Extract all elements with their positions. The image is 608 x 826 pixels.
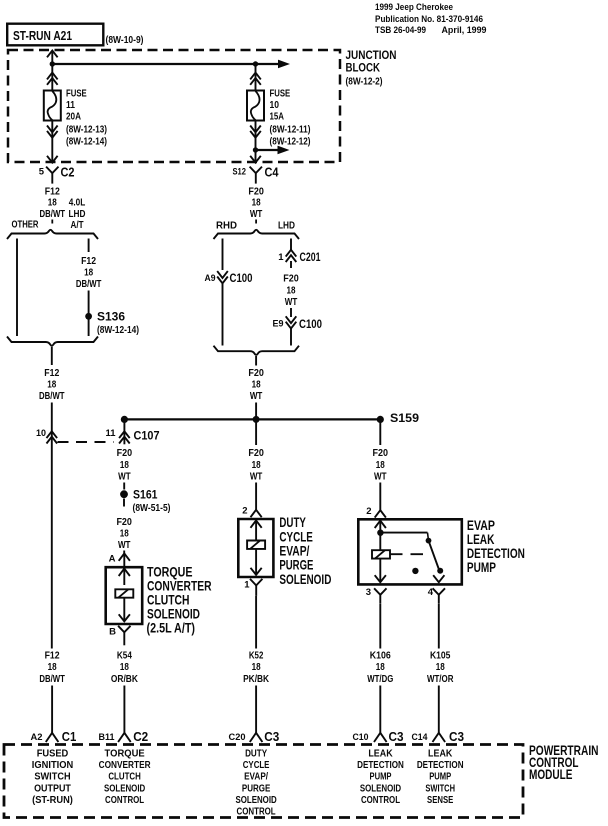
svg-text:(ST-RUN): (ST-RUN): [32, 795, 73, 806]
svg-text:1: 1: [278, 252, 284, 263]
svg-text:DB/WT: DB/WT: [76, 279, 102, 290]
svg-text:TORQUE: TORQUE: [105, 749, 145, 760]
svg-text:18: 18: [84, 267, 93, 278]
svg-text:DB/WT: DB/WT: [39, 674, 65, 685]
svg-text:SWITCH: SWITCH: [34, 772, 70, 783]
svg-text:SOLENOID: SOLENOID: [147, 606, 200, 621]
svg-text:CONVERTER: CONVERTER: [99, 760, 152, 771]
svg-text:CONTROL: CONTROL: [105, 795, 144, 806]
svg-text:FUSE: FUSE: [270, 88, 291, 99]
svg-text:18: 18: [252, 662, 261, 673]
svg-text:SOLENOID: SOLENOID: [104, 783, 145, 794]
svg-text:15A: 15A: [270, 112, 285, 123]
svg-text:S136: S136: [97, 310, 125, 324]
svg-text:F20: F20: [248, 448, 264, 459]
svg-text:LEAK: LEAK: [368, 749, 393, 760]
svg-text:SOLENOID: SOLENOID: [279, 572, 331, 587]
svg-text:MODULE: MODULE: [529, 767, 573, 782]
svg-text:WT/DG: WT/DG: [367, 674, 393, 685]
svg-text:C2: C2: [133, 730, 148, 744]
svg-text:B: B: [109, 627, 116, 638]
svg-text:18: 18: [48, 662, 57, 673]
svg-text:1: 1: [244, 579, 250, 590]
svg-text:C14: C14: [412, 732, 429, 743]
svg-text:B11: B11: [99, 732, 116, 743]
svg-text:RHD: RHD: [216, 220, 237, 231]
svg-text:PUMP: PUMP: [467, 560, 496, 575]
svg-text:LEAK: LEAK: [467, 532, 495, 547]
svg-text:(8W-12-13): (8W-12-13): [66, 124, 107, 135]
svg-text:CLUTCH: CLUTCH: [147, 592, 190, 607]
svg-text:18: 18: [376, 662, 385, 673]
svg-text:11: 11: [106, 428, 117, 439]
svg-text:C100: C100: [230, 271, 253, 285]
svg-text:F12: F12: [44, 368, 59, 379]
svg-text:FUSED: FUSED: [37, 749, 69, 760]
svg-text:A9: A9: [205, 273, 216, 284]
svg-text:April, 1999: April, 1999: [442, 25, 487, 36]
svg-text:(8W-12-14): (8W-12-14): [66, 137, 107, 148]
svg-text:K106: K106: [370, 650, 391, 661]
svg-text:(8W-12-2): (8W-12-2): [346, 76, 383, 88]
svg-text:ST-RUN A21: ST-RUN A21: [13, 28, 72, 43]
svg-text:F20: F20: [117, 448, 133, 459]
svg-text:IGNITION: IGNITION: [32, 760, 73, 771]
svg-text:2: 2: [366, 506, 371, 517]
svg-text:S12: S12: [233, 166, 247, 177]
svg-text:EVAP/: EVAP/: [279, 543, 309, 558]
svg-text:5: 5: [39, 166, 45, 177]
svg-text:OR/BK: OR/BK: [111, 674, 139, 685]
svg-text:CYCLE: CYCLE: [279, 529, 313, 544]
svg-text:F20: F20: [248, 186, 264, 197]
svg-text:(8W-12-14): (8W-12-14): [97, 325, 139, 336]
svg-text:C4: C4: [265, 165, 279, 179]
svg-text:18: 18: [48, 198, 57, 209]
svg-text:F20: F20: [248, 368, 264, 379]
svg-text:OUTPUT: OUTPUT: [34, 783, 71, 794]
svg-text:DUTY: DUTY: [245, 749, 267, 760]
svg-text:OTHER: OTHER: [12, 219, 40, 230]
svg-text:WT: WT: [118, 540, 131, 551]
svg-text:FUSE: FUSE: [66, 88, 87, 99]
svg-text:PK/BK: PK/BK: [243, 674, 270, 685]
svg-text:18: 18: [120, 529, 129, 540]
svg-text:SOLENOID: SOLENOID: [360, 783, 401, 794]
svg-text:K52: K52: [249, 650, 264, 661]
svg-text:18: 18: [120, 662, 129, 673]
svg-text:PUMP: PUMP: [370, 772, 392, 783]
svg-text:(8W-12-12): (8W-12-12): [270, 137, 311, 148]
svg-text:LEAK: LEAK: [428, 749, 453, 760]
svg-text:SOLENOID: SOLENOID: [235, 795, 276, 806]
svg-text:K105: K105: [430, 650, 451, 661]
svg-text:18: 18: [287, 286, 296, 297]
svg-text:CONTROL: CONTROL: [361, 795, 400, 806]
svg-text:PURGE: PURGE: [279, 558, 313, 573]
svg-text:2: 2: [242, 506, 247, 517]
svg-text:A2: A2: [31, 732, 43, 743]
svg-text:C10: C10: [353, 732, 369, 743]
svg-text:CYCLE: CYCLE: [243, 760, 270, 771]
svg-text:DETECTION: DETECTION: [467, 546, 525, 561]
svg-text:C3: C3: [389, 730, 404, 744]
svg-text:A: A: [109, 553, 116, 564]
svg-text:20A: 20A: [66, 112, 81, 123]
svg-text:DB/WT: DB/WT: [40, 209, 66, 220]
svg-text:3: 3: [366, 587, 371, 598]
svg-text:SWITCH: SWITCH: [425, 783, 455, 794]
svg-text:LHD: LHD: [278, 220, 295, 231]
svg-text:10: 10: [36, 428, 46, 439]
svg-text:BLOCK: BLOCK: [346, 62, 381, 74]
svg-text:4.0L: 4.0L: [69, 198, 86, 209]
svg-text:F20: F20: [283, 274, 299, 285]
svg-text:C100: C100: [299, 317, 322, 331]
svg-text:(8W-51-5): (8W-51-5): [133, 503, 171, 514]
svg-text:(8W-12-11): (8W-12-11): [270, 124, 311, 135]
svg-text:WT/OR: WT/OR: [427, 674, 454, 685]
svg-text:S161: S161: [133, 488, 158, 502]
svg-text:SENSE: SENSE: [427, 795, 454, 806]
svg-text:DETECTION: DETECTION: [357, 760, 404, 771]
svg-text:C201: C201: [300, 250, 321, 264]
svg-text:18: 18: [47, 380, 56, 391]
svg-text:C2: C2: [61, 165, 75, 179]
svg-text:WT: WT: [118, 471, 131, 482]
svg-text:F12: F12: [45, 650, 60, 661]
svg-text:DETECTION: DETECTION: [417, 760, 464, 771]
svg-text:PUMP: PUMP: [429, 772, 451, 783]
svg-text:WT: WT: [374, 471, 387, 482]
svg-text:F12: F12: [81, 256, 96, 267]
svg-text:CLUTCH: CLUTCH: [108, 772, 141, 783]
svg-text:18: 18: [376, 460, 385, 471]
svg-text:WT: WT: [250, 391, 263, 402]
svg-text:WT: WT: [250, 209, 263, 220]
svg-text:K54: K54: [117, 650, 132, 661]
svg-text:(2.5L A/T): (2.5L A/T): [147, 621, 196, 636]
svg-text:C3: C3: [449, 730, 464, 744]
svg-text:18: 18: [252, 380, 261, 391]
svg-text:18: 18: [436, 662, 445, 673]
svg-text:EVAP: EVAP: [467, 518, 495, 533]
svg-text:18: 18: [252, 198, 261, 209]
svg-text:C1: C1: [62, 730, 77, 744]
svg-text:LHD: LHD: [69, 209, 86, 220]
svg-text:C3: C3: [264, 730, 279, 744]
svg-text:18: 18: [120, 460, 129, 471]
svg-text:CONVERTER: CONVERTER: [147, 578, 212, 593]
svg-text:10: 10: [270, 100, 280, 111]
svg-text:EVAP/: EVAP/: [244, 772, 268, 783]
svg-text:DUTY: DUTY: [279, 515, 306, 530]
svg-text:S159: S159: [390, 411, 419, 425]
svg-text:CONTROL: CONTROL: [237, 807, 276, 818]
svg-text:Publication No. 81-370-9146: Publication No. 81-370-9146: [375, 14, 483, 25]
svg-text:4: 4: [428, 587, 434, 598]
svg-text:JUNCTION: JUNCTION: [346, 50, 397, 62]
svg-text:11: 11: [66, 100, 75, 111]
svg-text:WT: WT: [285, 297, 298, 308]
svg-text:1999 Jeep Cherokee: 1999 Jeep Cherokee: [375, 2, 453, 13]
svg-text:E9: E9: [273, 319, 284, 330]
svg-text:(8W-10-9): (8W-10-9): [106, 34, 144, 46]
svg-text:C107: C107: [134, 429, 160, 443]
svg-text:WT: WT: [250, 471, 263, 482]
svg-text:F20: F20: [373, 448, 389, 459]
svg-text:TORQUE: TORQUE: [147, 564, 193, 579]
svg-text:TSB 26-04-99: TSB 26-04-99: [375, 25, 426, 36]
svg-text:PURGE: PURGE: [242, 783, 271, 794]
svg-text:F20: F20: [116, 517, 132, 528]
svg-text:DB/WT: DB/WT: [39, 391, 65, 402]
svg-text:A/T: A/T: [71, 220, 84, 231]
svg-text:C20: C20: [229, 732, 246, 743]
svg-text:18: 18: [252, 460, 261, 471]
svg-text:F12: F12: [45, 186, 60, 197]
